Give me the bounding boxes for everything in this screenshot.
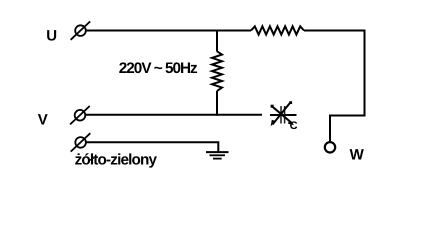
svg-text:W: W	[350, 147, 365, 164]
wire top from U terminal to R1	[86, 30, 251, 32]
wire from R2 to V line	[216, 91, 218, 116]
terminal W (open circle)	[325, 142, 335, 152]
terminal U	[71, 21, 91, 39]
capacitor C (crossed out, with lead)	[270, 101, 297, 126]
resistor R1 (horizontal zigzag)	[251, 26, 304, 34]
resistor R2 (vertical zigzag)	[212, 51, 222, 91]
wire branch from top wire down to vertical resistor	[216, 30, 218, 52]
svg-text:C: C	[290, 120, 298, 132]
wire from PE terminal to ground	[86, 142, 218, 152]
terminal V	[70, 106, 90, 124]
wire from V terminal toward capacitor	[85, 114, 262, 116]
svg-text:V: V	[38, 112, 48, 129]
wire from R1 to right corner	[304, 30, 366, 32]
svg-text:żółto-zielony: żółto-zielony	[75, 152, 158, 169]
terminal PE	[71, 133, 91, 151]
ground (earth)	[206, 152, 229, 159]
svg-text:220V ~ 50Hz: 220V ~ 50Hz	[119, 60, 198, 77]
svg-text:U: U	[46, 27, 57, 44]
wire right vertical drop	[330, 30, 365, 143]
